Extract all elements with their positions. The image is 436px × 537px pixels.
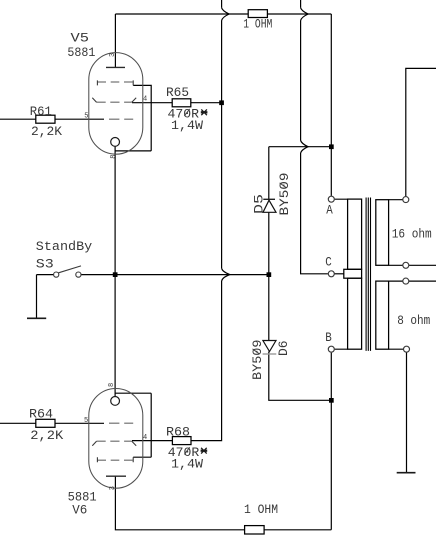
svg-text:StandBy: StandBy	[36, 239, 92, 254]
svg-text:R61: R61	[30, 104, 52, 119]
svg-text:2,2K: 2,2K	[31, 124, 62, 139]
svg-text:D6: D6	[276, 340, 291, 356]
svg-text:1,4W: 1,4W	[171, 118, 203, 133]
svg-text:3: 3	[109, 53, 117, 57]
svg-text:R65: R65	[166, 85, 189, 100]
svg-text:16 ohm: 16 ohm	[392, 226, 432, 241]
svg-text:5881: 5881	[67, 45, 95, 60]
svg-text:B: B	[325, 330, 332, 345]
svg-text:C: C	[325, 254, 332, 269]
svg-text:4: 4	[143, 96, 147, 104]
svg-text:BY509: BY509	[277, 173, 292, 216]
svg-text:4: 4	[143, 434, 147, 442]
svg-text:5: 5	[84, 112, 88, 120]
svg-text:V5: V5	[71, 31, 90, 46]
svg-text:5: 5	[84, 417, 88, 425]
svg-text:A: A	[326, 203, 333, 218]
svg-text:1,4W: 1,4W	[171, 457, 203, 472]
svg-text:BY509: BY509	[250, 340, 265, 381]
svg-text:1 OHM: 1 OHM	[244, 502, 278, 517]
svg-text:8: 8	[108, 383, 116, 387]
svg-text:2,2K: 2,2K	[30, 428, 63, 443]
svg-text:R64: R64	[29, 407, 53, 422]
svg-text:8 ohm: 8 ohm	[397, 313, 430, 328]
svg-text:R68: R68	[166, 425, 190, 440]
svg-text:D5: D5	[252, 194, 267, 214]
svg-text:3: 3	[109, 486, 117, 490]
svg-text:1 OHM: 1 OHM	[243, 16, 272, 31]
svg-text:V6: V6	[72, 502, 87, 517]
svg-text:8: 8	[110, 154, 118, 158]
svg-text:S3: S3	[36, 257, 54, 272]
